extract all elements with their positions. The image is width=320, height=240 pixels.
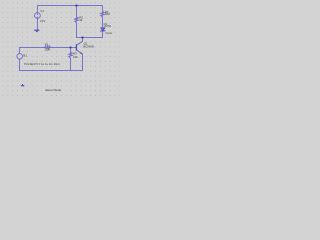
junction dot top rail bbox=[76, 5, 78, 7]
wire top rail bbox=[38, 6, 103, 13]
wire collector stub bbox=[82, 38, 84, 42]
svg-text:B1: B1 bbox=[23, 54, 27, 58]
svg-text:1N750: 1N750 bbox=[103, 24, 111, 28]
voltage source V1 bbox=[35, 13, 41, 19]
wire base feed left bbox=[20, 48, 45, 54]
svg-text:PULSE(0 5 0 1u 1u 4m 10m): PULSE(0 5 0 1u 1u 4m 10m) bbox=[24, 62, 60, 66]
wire B1 bottom stub / bottom rail bbox=[20, 59, 83, 70]
svg-text:BC546B: BC546B bbox=[83, 45, 94, 49]
svg-text:10k: 10k bbox=[73, 55, 78, 59]
wire emitter stub bbox=[82, 54, 84, 70]
wire base feed right bbox=[50, 47, 76, 49]
wire R3 column bottom bbox=[70, 59, 72, 71]
svg-text:zener: zener bbox=[105, 31, 112, 35]
wire right column below zener bbox=[102, 31, 104, 37]
behavioral source B1 bbox=[17, 54, 23, 60]
zener diode D1 bbox=[100, 28, 105, 32]
wire R2 branch top bbox=[76, 6, 78, 18]
svg-text:15V: 15V bbox=[40, 19, 45, 23]
ground symbol bottom bbox=[21, 84, 24, 86]
wire R3 column top bbox=[70, 48, 72, 53]
resistor R3 (base-divider column) bbox=[69, 52, 72, 58]
background bbox=[0, 0, 120, 98]
resistor R1 (right column) bbox=[101, 12, 104, 17]
ground under V1 bbox=[34, 30, 39, 32]
wire right column mid bbox=[102, 17, 104, 28]
wire R2 branch bottom to mid rail bbox=[77, 22, 103, 37]
wire V1 bottom stub bbox=[37, 18, 39, 29]
svg-text:1k: 1k bbox=[79, 18, 83, 22]
junction dot base node bbox=[70, 47, 72, 49]
junction dot mid rail bbox=[82, 37, 84, 39]
svg-text:R1: R1 bbox=[45, 42, 49, 46]
resistor R2 (top middle column) bbox=[75, 17, 78, 22]
transistor Q1 bbox=[76, 41, 82, 54]
svg-text:V1: V1 bbox=[40, 9, 44, 13]
svg-text:Zener Diode: Zener Diode bbox=[45, 88, 61, 92]
resistor R1 base (horizontal) bbox=[45, 46, 51, 49]
svg-text:600: 600 bbox=[105, 12, 110, 16]
svg-text:1.2k: 1.2k bbox=[44, 48, 50, 52]
